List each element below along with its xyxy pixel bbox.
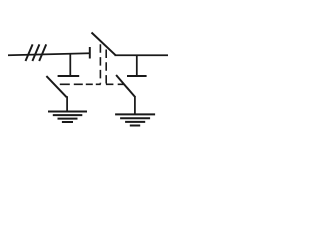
feed line slash 3 [39,44,46,61]
wire: S3 pivot to right ground [134,97,136,114]
mechanical linkage: dashed horizontal to S3 lever [106,83,124,85]
switch S2 lever (open) [46,76,66,97]
wire: S2 pivot to left ground [66,96,68,111]
ground (left) [48,112,87,123]
mechanical linkage: dashed vertical from S1 lever (right) [105,50,107,84]
feed line slash 1 [26,44,33,61]
wire: right line [115,54,169,56]
mechanical linkage: dashed vertical from S1 lever (left) [99,44,101,83]
wire: left feed line [8,53,90,55]
switch S3 fixed contact bar [127,75,147,77]
wire: stem from right line down to S3 fixed contact [136,55,138,75]
switch S1 lever (open) [92,33,116,56]
ground (right) [115,114,155,125]
feed line slash 2 [32,44,39,61]
switch S2 fixed contact bar [58,75,80,77]
mechanical linkage: dashed horizontal to S2 lever [56,83,101,85]
switch S1 fixed contact post [89,47,91,59]
switch S3 lever (open) [116,75,135,97]
wire: stem from left line down to S2 fixed contact [69,54,71,76]
